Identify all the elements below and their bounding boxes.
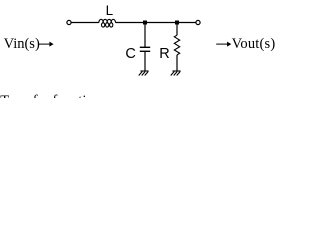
wire: input terminal to inductor [71, 22, 98, 24]
wire: junction down to resistor top [176, 23, 178, 36]
ground (resistor) [171, 71, 181, 76]
inductor L (coil) [99, 19, 116, 27]
arrow after Vin(s) [39, 43, 51, 45]
svg-text:L: L [106, 3, 114, 18]
svg-text:C: C [125, 46, 135, 62]
wire: inductor to output terminal [116, 22, 196, 24]
svg-text:Transfer function: Transfer function [0, 93, 101, 98]
node: junction dot at capacitor branch [143, 21, 147, 25]
node: junction dot at resistor branch [175, 21, 179, 25]
resistor R (zigzag) [174, 35, 179, 55]
capacitor C plates [140, 46, 150, 48]
svg-text:Vin(s): Vin(s) [4, 36, 40, 52]
wire: resistor bottom to ground [176, 55, 178, 71]
svg-text:Vout(s): Vout(s) [232, 36, 276, 52]
input terminal (open circle) [67, 20, 71, 24]
arrow before Vout(s) [216, 43, 228, 45]
svg-text:R: R [159, 46, 169, 62]
ground (capacitor) [139, 71, 149, 76]
wire: junction down to capacitor top plate [144, 23, 146, 48]
output terminal (open circle) [196, 20, 200, 24]
wire: capacitor bottom plate to ground [144, 51, 146, 71]
